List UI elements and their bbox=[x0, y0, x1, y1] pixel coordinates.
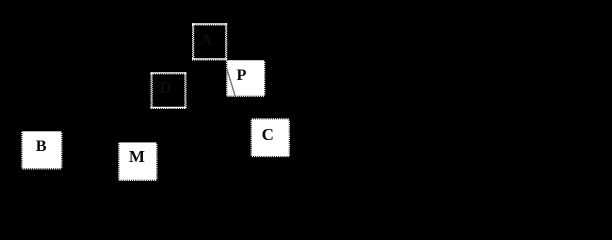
svg-text:P: P bbox=[237, 65, 247, 84]
svg-text:B: B bbox=[36, 137, 47, 155]
svg-text:M: M bbox=[129, 147, 145, 166]
svg-text:D: D bbox=[159, 78, 171, 97]
svg-text:C: C bbox=[262, 125, 274, 144]
svg-text:A: A bbox=[200, 30, 213, 49]
